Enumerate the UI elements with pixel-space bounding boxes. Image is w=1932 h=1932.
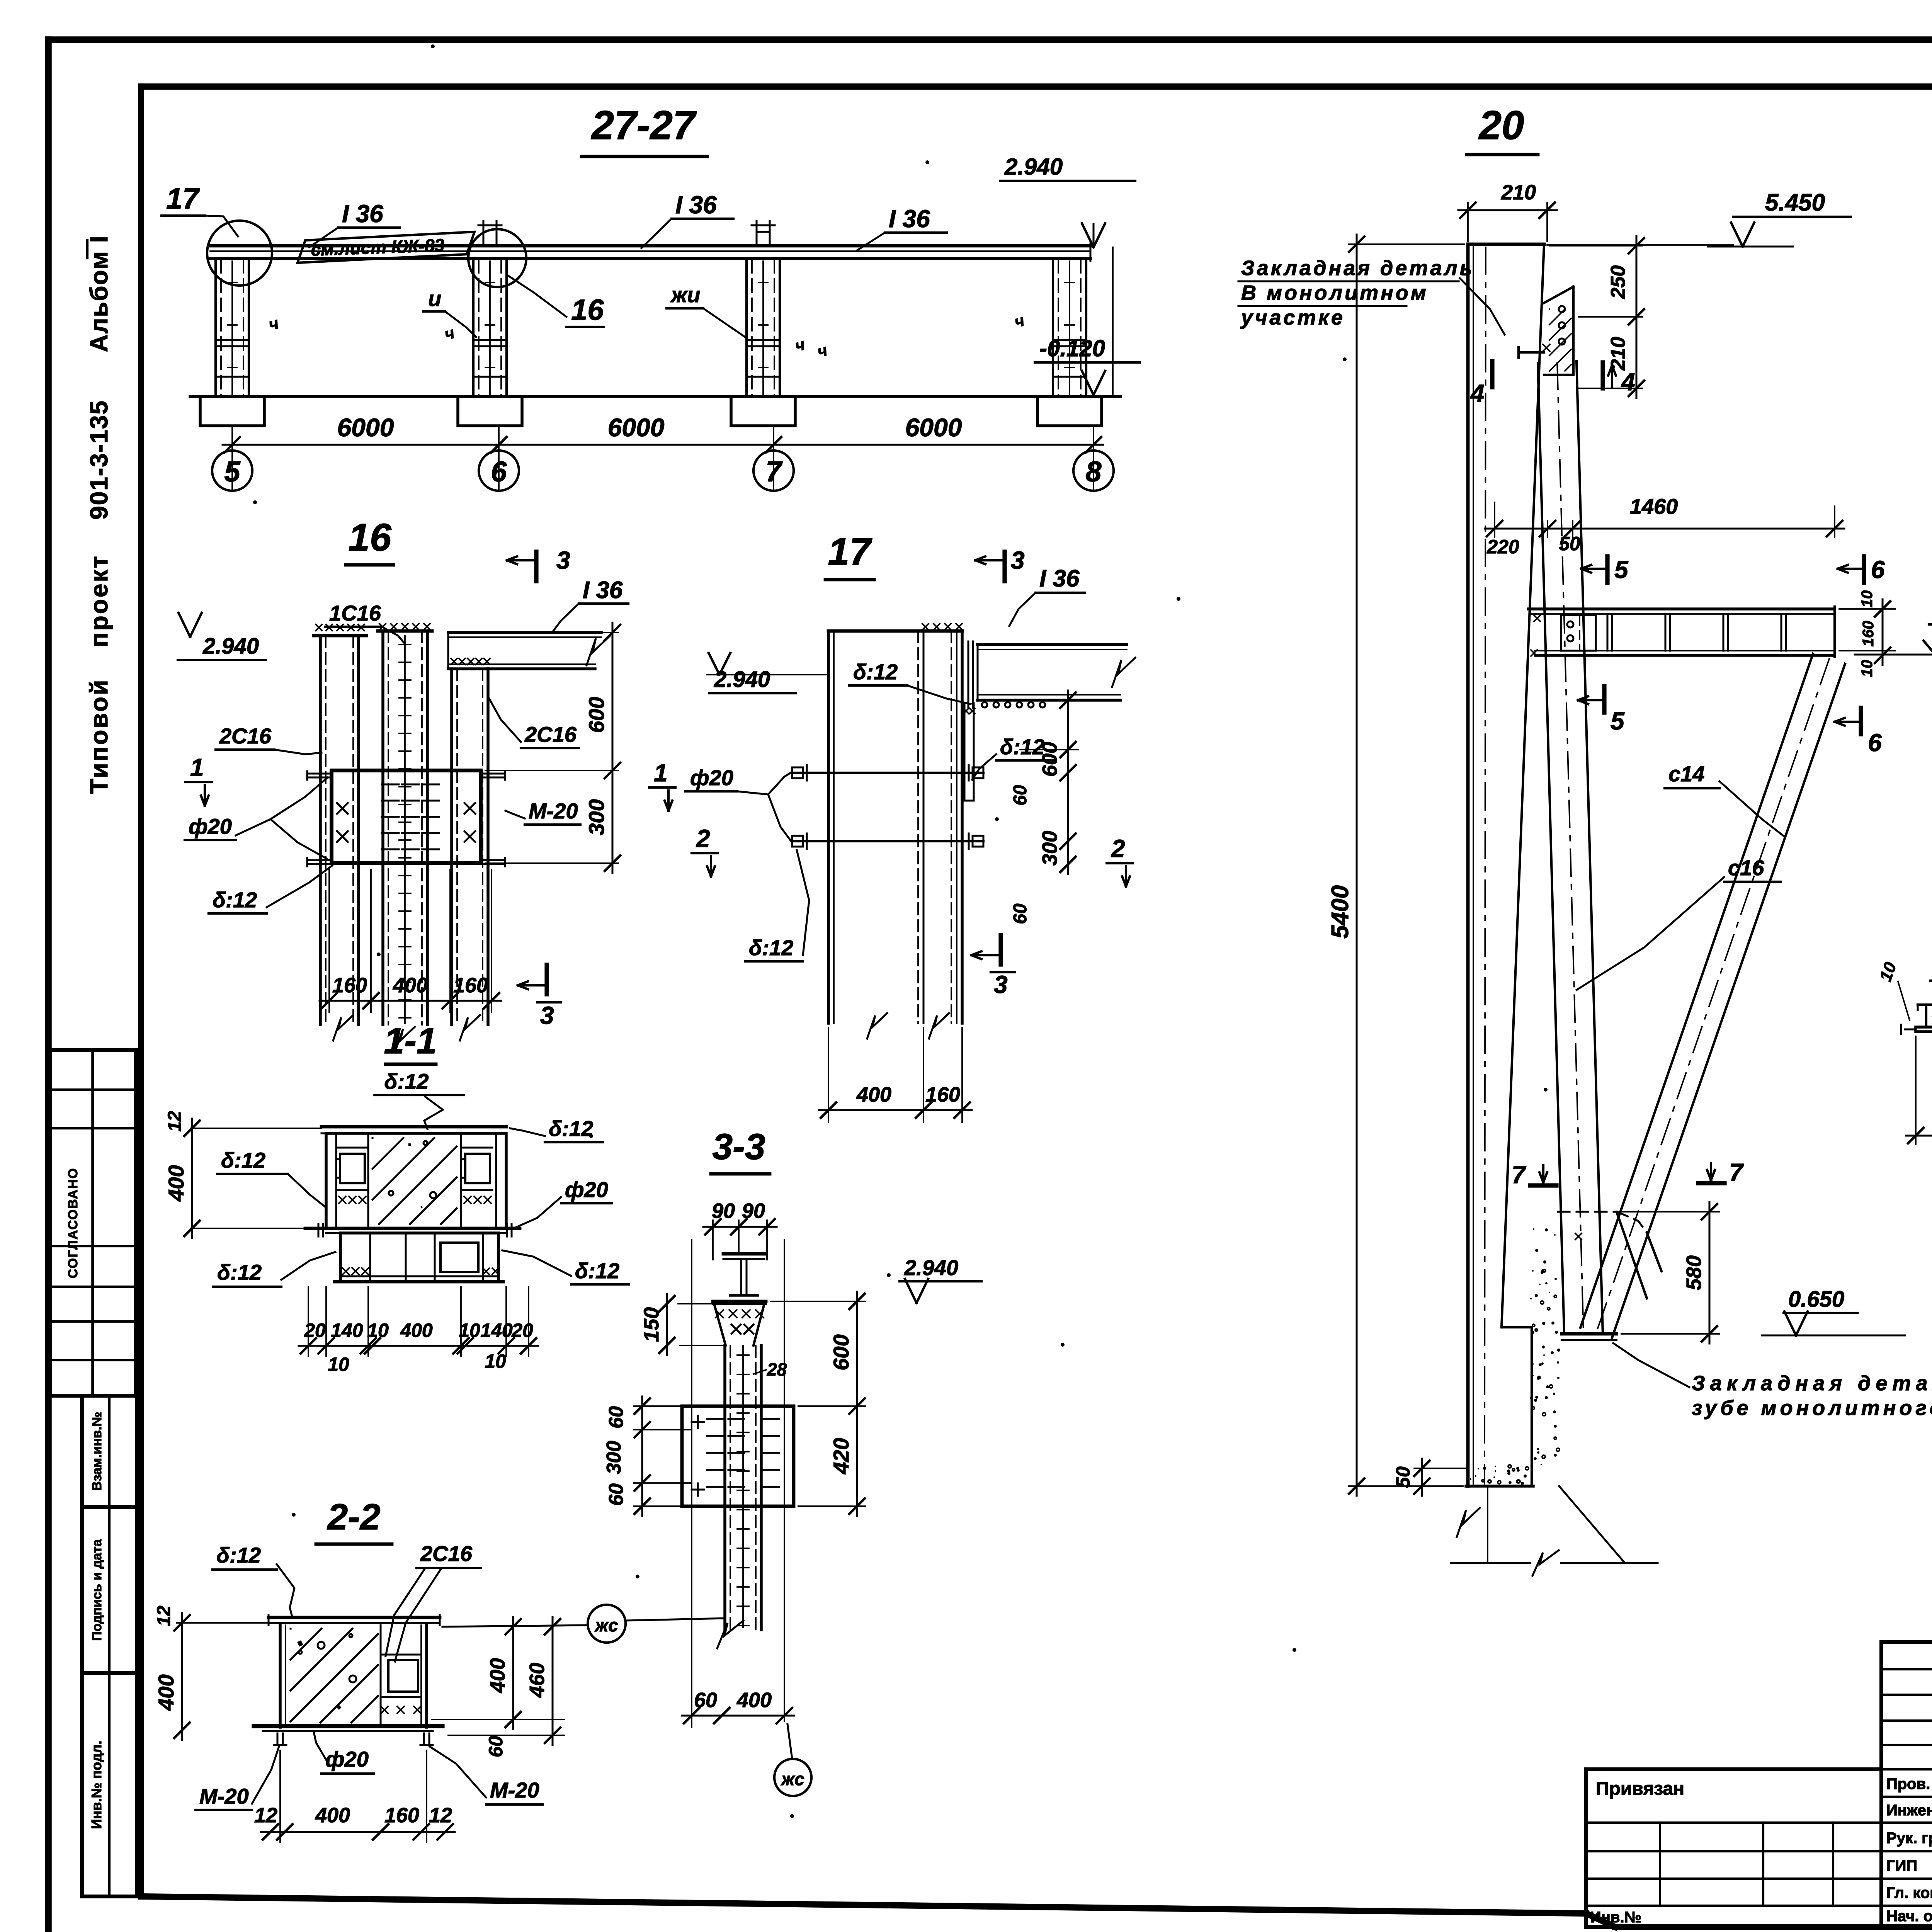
svg-text:Нач. отд: Нач. отд — [1886, 1908, 1932, 1925]
svg-text:2-2: 2-2 — [327, 1497, 380, 1537]
svg-text:δ:12: δ:12 — [749, 935, 793, 960]
svg-text:ф20: ф20 — [690, 765, 733, 790]
svg-text:27-27: 27-27 — [591, 103, 697, 148]
svg-text:460: 460 — [526, 1663, 549, 1698]
svg-text:300: 300 — [1038, 831, 1061, 866]
svg-text:1-1: 1-1 — [384, 1020, 437, 1061]
svg-text:600: 600 — [1038, 742, 1061, 777]
svg-text:250: 250 — [1607, 265, 1629, 299]
svg-text:28: 28 — [767, 1359, 787, 1379]
svg-text:10: 10 — [459, 1320, 480, 1341]
svg-text:6000: 6000 — [905, 413, 962, 442]
svg-text:60: 60 — [694, 1689, 717, 1712]
svg-text:δ:12: δ:12 — [575, 1259, 619, 1283]
svg-text:I 36: I 36 — [342, 200, 383, 228]
svg-text:Подпись и дата: Подпись и дата — [90, 1539, 104, 1641]
svg-text:60: 60 — [605, 1406, 628, 1429]
svg-text:150: 150 — [640, 1307, 663, 1342]
svg-text:δ:12: δ:12 — [217, 1260, 262, 1284]
svg-text:600: 600 — [829, 1334, 853, 1370]
svg-text:ч: ч — [793, 335, 807, 355]
svg-text:0.650: 0.650 — [1788, 1287, 1844, 1312]
svg-text:6: 6 — [1868, 729, 1882, 757]
svg-text:ч: ч — [815, 341, 829, 361]
svg-text:5: 5 — [224, 456, 241, 488]
svg-text:3: 3 — [994, 971, 1008, 998]
svg-text:3-3: 3-3 — [712, 1126, 765, 1167]
svg-text:δ:12: δ:12 — [384, 1069, 429, 1094]
svg-text:3: 3 — [1011, 546, 1025, 574]
svg-text:2C16: 2C16 — [420, 1541, 473, 1566]
svg-text:6: 6 — [1871, 556, 1885, 583]
svg-text:6: 6 — [491, 456, 507, 488]
svg-text:17: 17 — [166, 182, 200, 215]
svg-text:20: 20 — [511, 1320, 533, 1341]
svg-text:3: 3 — [556, 546, 570, 574]
svg-text:с16: с16 — [1728, 855, 1764, 880]
svg-text:В монолитном: В монолитном — [1241, 281, 1429, 304]
svg-text:1C16: 1C16 — [329, 601, 381, 625]
svg-text:400: 400 — [400, 1320, 433, 1341]
svg-text:10: 10 — [367, 1320, 389, 1341]
svg-text:ч: ч — [442, 323, 456, 344]
svg-text:и: и — [428, 286, 441, 311]
svg-text:Закладная деталь В: Закладная деталь В — [1692, 1372, 1932, 1395]
svg-text:жс: жс — [780, 1769, 804, 1789]
svg-text:7: 7 — [1729, 1158, 1744, 1186]
svg-text:-0.120: -0.120 — [1039, 335, 1105, 361]
svg-text:580: 580 — [1682, 1255, 1706, 1290]
svg-text:5.450: 5.450 — [1765, 189, 1825, 216]
svg-text:3: 3 — [540, 1002, 554, 1029]
svg-text:901-3-135: 901-3-135 — [85, 400, 113, 520]
svg-text:12: 12 — [165, 1111, 185, 1132]
svg-text:с14: с14 — [1668, 762, 1704, 786]
svg-text:5: 5 — [1611, 707, 1625, 735]
svg-text:7: 7 — [1512, 1161, 1527, 1189]
svg-text:16: 16 — [571, 294, 604, 327]
svg-text:I 36: I 36 — [583, 577, 623, 604]
svg-text:2: 2 — [1111, 835, 1125, 862]
svg-text:10: 10 — [1859, 590, 1876, 608]
svg-text:2C16: 2C16 — [524, 722, 577, 747]
svg-text:Инв.№: Инв.№ — [1590, 1909, 1641, 1926]
svg-text:М-20: М-20 — [199, 1784, 249, 1808]
svg-text:2.940: 2.940 — [202, 634, 259, 659]
svg-text:2C16: 2C16 — [219, 724, 272, 748]
svg-text:5: 5 — [1614, 556, 1629, 583]
svg-text:2: 2 — [696, 825, 710, 852]
svg-text:400: 400 — [154, 1674, 178, 1711]
svg-text:Гл. констр: Гл. констр — [1886, 1884, 1932, 1901]
svg-text:300: 300 — [603, 1441, 625, 1475]
svg-text:ГИП: ГИП — [1886, 1857, 1917, 1874]
svg-text:400: 400 — [736, 1689, 772, 1712]
svg-text:7: 7 — [765, 456, 783, 488]
svg-text:90: 90 — [712, 1199, 735, 1223]
svg-text:210: 210 — [1607, 337, 1629, 371]
svg-text:140: 140 — [331, 1320, 363, 1341]
svg-text:Инв.№ подл.: Инв.№ подл. — [88, 1741, 104, 1829]
svg-text:δ:12: δ:12 — [221, 1148, 265, 1172]
svg-text:Альбом I: Альбом I — [85, 235, 113, 352]
svg-text:420: 420 — [829, 1438, 853, 1474]
svg-text:1: 1 — [190, 753, 204, 781]
svg-text:1460: 1460 — [1630, 494, 1678, 519]
svg-text:ч: ч — [267, 314, 281, 334]
svg-text:ф20: ф20 — [565, 1177, 608, 1202]
svg-text:160: 160 — [332, 974, 367, 997]
svg-text:60: 60 — [605, 1483, 628, 1506]
svg-text:участке: участке — [1240, 306, 1345, 329]
svg-text:10: 10 — [328, 1354, 349, 1375]
svg-text:17: 17 — [828, 530, 872, 573]
svg-text:Типовой: Типовой — [85, 679, 113, 794]
svg-text:СОГЛАСОВАНО: СОГЛАСОВАНО — [66, 1168, 80, 1279]
svg-text:4: 4 — [1470, 379, 1485, 407]
svg-text:Пров.: Пров. — [1886, 1776, 1930, 1793]
svg-text:12: 12 — [254, 1804, 277, 1827]
svg-text:Закладная деталь: Закладная деталь — [1241, 257, 1475, 280]
svg-text:50: 50 — [1392, 1466, 1414, 1488]
svg-text:δ:12: δ:12 — [216, 1543, 261, 1567]
svg-text:М-20: М-20 — [529, 799, 578, 823]
svg-text:160: 160 — [384, 1804, 419, 1827]
svg-text:2.940: 2.940 — [904, 1255, 958, 1280]
svg-text:600: 600 — [584, 697, 609, 733]
svg-text:6000: 6000 — [608, 413, 665, 442]
svg-text:δ:12: δ:12 — [1000, 735, 1044, 759]
svg-text:ч: ч — [1012, 311, 1026, 331]
svg-text:400: 400 — [164, 1165, 188, 1201]
svg-text:60: 60 — [1010, 785, 1031, 806]
svg-text:I 36: I 36 — [675, 191, 717, 219]
svg-text:60: 60 — [485, 1736, 507, 1757]
svg-text:10: 10 — [485, 1350, 506, 1372]
svg-text:I 36: I 36 — [889, 205, 930, 233]
svg-text:жи: жи — [670, 282, 700, 307]
svg-text:М-20: М-20 — [490, 1778, 539, 1802]
svg-text:220: 220 — [1486, 536, 1519, 558]
svg-text:2.940: 2.940 — [1004, 154, 1063, 180]
svg-text:10: 10 — [1876, 959, 1900, 984]
svg-text:5400: 5400 — [1327, 885, 1354, 939]
svg-text:6000: 6000 — [337, 413, 394, 442]
svg-text:10: 10 — [1859, 660, 1876, 677]
svg-text:проект: проект — [85, 554, 113, 647]
svg-text:90: 90 — [742, 1199, 765, 1223]
svg-text:400: 400 — [486, 1658, 509, 1693]
svg-text:Инженер: Инженер — [1886, 1802, 1932, 1819]
svg-text:20: 20 — [1478, 103, 1524, 148]
svg-text:400: 400 — [856, 1083, 891, 1106]
svg-text:Взам.инв.№: Взам.инв.№ — [90, 1412, 104, 1491]
svg-text:8: 8 — [1085, 456, 1102, 488]
svg-text:зубе монолитного днища: зубе монолитного днища — [1692, 1396, 1932, 1420]
svg-text:1: 1 — [654, 759, 668, 787]
svg-text:ф20: ф20 — [189, 814, 232, 838]
svg-text:140: 140 — [480, 1320, 513, 1341]
svg-text:Рук. гр.: Рук. гр. — [1886, 1830, 1932, 1847]
svg-text:δ:12: δ:12 — [853, 660, 898, 684]
svg-text:300: 300 — [584, 799, 609, 835]
svg-text:12: 12 — [429, 1804, 452, 1827]
svg-text:400: 400 — [393, 974, 428, 997]
svg-text:210: 210 — [1501, 181, 1536, 204]
svg-text:Привязан: Привязан — [1596, 1779, 1684, 1799]
svg-text:160: 160 — [453, 974, 488, 997]
svg-text:160: 160 — [1860, 621, 1877, 647]
svg-text:4: 4 — [1621, 368, 1635, 396]
svg-text:16: 16 — [348, 516, 392, 559]
svg-text:160: 160 — [925, 1083, 960, 1106]
svg-text:I 36: I 36 — [1039, 565, 1080, 592]
svg-text:50: 50 — [1559, 533, 1580, 554]
svg-text:жс: жс — [594, 1615, 618, 1635]
svg-text:60: 60 — [1010, 903, 1031, 924]
svg-text:400: 400 — [315, 1804, 350, 1827]
svg-text:δ:12: δ:12 — [549, 1116, 593, 1141]
svg-text:δ:12: δ:12 — [213, 888, 257, 912]
svg-text:20: 20 — [304, 1320, 326, 1341]
svg-text:12: 12 — [154, 1605, 174, 1626]
svg-text:ф20: ф20 — [325, 1747, 369, 1771]
